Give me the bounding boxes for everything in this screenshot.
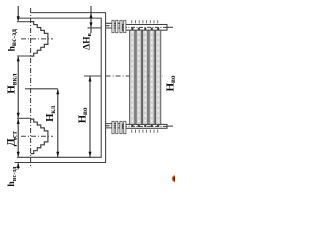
top extension line at y=21.7	[17, 21, 31, 23]
radiator tubes	[130, 30, 161, 124]
ticks above top header	[132, 20, 158, 133]
Hvo level line and shaft at x=90	[84, 75, 101, 77]
flange bars bottom pairs	[112, 121, 114, 133]
orange blob bottom right	[0, 0, 1, 1]
radiator mid dash-dot axis	[106, 75, 163, 77]
tube joint marks in headers	[131, 28, 159, 127]
bottom appliance horizontal dash-dot axis	[21, 135, 53, 137]
bottom stepped appliance body	[31, 119, 48, 154]
supply pipe top line with riser outer and return bottom line	[15, 13, 106, 163]
dHv arrows x=91	[90, 13, 93, 18]
Hvo arrows x=90	[89, 76, 92, 81]
supply pipe bottom line with riser inner and return top line	[17, 18, 101, 157]
header center dash-dot axes	[123, 26, 167, 28]
tube center white dashes	[132, 31, 158, 124]
top header	[123, 25, 168, 31]
right axis stubs	[167, 26, 173, 28]
Hkl level line and shaft at x=57.8	[25, 88, 58, 90]
extension line above bottom appliance	[17, 117, 31, 119]
dHv dimension shaft at x=91	[90, 6, 92, 33]
bottom header	[123, 124, 168, 128]
ticks below bottom header	[131, 130, 133, 133]
chain x=18.2	[17, 16, 20, 21]
extension line under top appliance	[17, 55, 34, 57]
svg-text:hвс-зд: hвс-зд	[8, 29, 19, 51]
top appliance horizontal dash-dot axis	[21, 38, 53, 40]
vertical dash-dot axis of appliance	[30, 8, 32, 167]
bottom connection stub double line	[106, 123, 123, 125]
dimension chain shafts at x=18.2	[17, 6, 19, 21]
top stepped appliance body	[31, 22, 48, 57]
dimension arrowheads	[17, 13, 93, 168]
flange bars top pairs	[112, 20, 126, 133]
Hkl arrows x=57.8	[56, 89, 59, 94]
top connection stub double line	[106, 22, 123, 24]
